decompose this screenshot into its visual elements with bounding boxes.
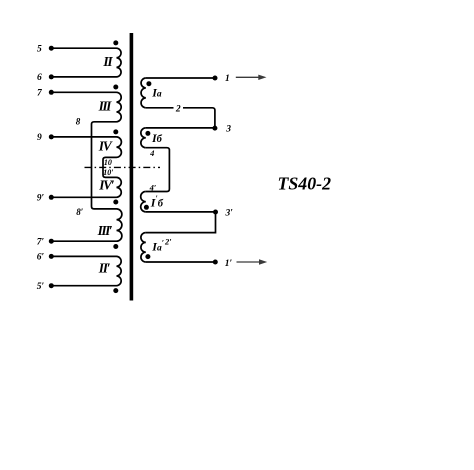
wire 2': node 3' to winding Ia' top bbox=[146, 212, 216, 233]
svg-text:10: 10 bbox=[104, 158, 112, 167]
terminal 7 node bbox=[49, 90, 54, 95]
node 3 bbox=[212, 126, 217, 131]
winding III coil bbox=[117, 92, 122, 121]
winding II with leads to terminals 5 and 6 bbox=[51, 48, 121, 77]
terminal 9' node bbox=[49, 195, 54, 200]
core (laminated core bar) bbox=[130, 33, 134, 301]
polarity dot winding Ia bbox=[146, 81, 151, 86]
wire: winding I6' bottom to node 3' bbox=[146, 211, 216, 213]
terminal 6' node bbox=[49, 254, 54, 259]
polarity dot winding IV' bbox=[113, 200, 118, 205]
terminal 5 node bbox=[49, 46, 54, 51]
svg-text:9′: 9′ bbox=[37, 194, 45, 204]
wire: node 3 to winding I6 top bbox=[146, 127, 215, 129]
svg-text:2: 2 bbox=[175, 104, 181, 114]
svg-text:1: 1 bbox=[225, 74, 230, 84]
svg-text:8: 8 bbox=[76, 116, 81, 126]
svg-text:3′: 3′ bbox=[224, 209, 233, 219]
terminal label 2 (with wire gap) bbox=[174, 104, 184, 113]
arrow output at terminal 1' bbox=[237, 259, 268, 264]
svg-text:III′: III′ bbox=[97, 223, 113, 238]
wire: winding III' bottom to terminal 7' bbox=[51, 240, 116, 242]
svg-text:Iб: Iб bbox=[151, 131, 163, 145]
svg-text:4: 4 bbox=[149, 148, 154, 158]
arrow output at terminal 1 bbox=[236, 75, 267, 80]
wire 2: winding Ia bottom to node 3 bbox=[146, 108, 215, 128]
polarity dot winding I6 bbox=[145, 131, 150, 136]
centerline (dash-dot magnetic axis) bbox=[85, 166, 161, 168]
polarity dot winding Ia' bbox=[145, 254, 150, 259]
svg-text:II′: II′ bbox=[98, 261, 111, 276]
svg-text:IV: IV bbox=[98, 139, 113, 154]
svg-text:5: 5 bbox=[37, 44, 42, 54]
svg-text:Iа: Iа bbox=[151, 85, 162, 99]
polarity dot winding IV bbox=[113, 129, 118, 134]
wire: winding IV' bottom to terminal 9' bbox=[51, 196, 116, 198]
node 3' bbox=[213, 210, 218, 215]
winding III' coil bbox=[117, 209, 122, 241]
terminal 6 node bbox=[49, 74, 54, 79]
svg-text:4′: 4′ bbox=[149, 182, 157, 192]
winding Ia coil bbox=[141, 78, 146, 108]
wire 10-10': winding IV bottom to winding IV' top bbox=[103, 157, 117, 177]
terminal 1' node bbox=[213, 260, 218, 265]
svg-text:II: II bbox=[102, 54, 113, 69]
polarity dot winding I6' bbox=[144, 205, 149, 210]
terminal 5' node bbox=[49, 283, 54, 288]
winding IV' coil bbox=[117, 177, 122, 197]
winding I6 coil bbox=[141, 128, 146, 148]
svg-text:9: 9 bbox=[37, 133, 42, 143]
svg-text:Iа′: Iа′ bbox=[151, 239, 164, 254]
svg-text:I′б: I′б bbox=[150, 194, 164, 210]
svg-text:1′: 1′ bbox=[225, 259, 233, 269]
wire 4-4': winding I6 bottom to winding I6' top bbox=[146, 148, 170, 192]
wire: terminal 1 to winding Ia top bbox=[146, 77, 215, 79]
polarity dot winding III' bbox=[113, 244, 118, 249]
svg-text:TS40-2: TS40-2 bbox=[278, 174, 332, 194]
svg-text:5′: 5′ bbox=[37, 282, 45, 292]
terminal 1 node bbox=[213, 76, 218, 81]
svg-text:7′: 7′ bbox=[37, 237, 45, 247]
wire 8: winding III bottom to winding III' top bbox=[92, 122, 117, 209]
svg-text:10′: 10′ bbox=[103, 168, 113, 177]
wire: terminal 7 lead to winding III top bbox=[51, 91, 116, 93]
winding I6' coil bbox=[141, 192, 146, 212]
terminal 7' node bbox=[49, 239, 54, 244]
svg-text:7: 7 bbox=[37, 89, 43, 99]
wire: terminal 9 lead to winding IV top bbox=[51, 136, 116, 138]
svg-text:2′: 2′ bbox=[164, 236, 172, 246]
terminal 9 node bbox=[49, 134, 54, 139]
svg-text:IV′: IV′ bbox=[98, 177, 115, 192]
svg-text:6′: 6′ bbox=[37, 253, 45, 263]
polarity dot winding II' bbox=[113, 288, 118, 293]
winding II' with leads to terminals 6' and 5' bbox=[51, 256, 121, 285]
polarity dot winding II bbox=[113, 40, 118, 45]
svg-text:8′: 8′ bbox=[76, 207, 84, 217]
wire: winding Ia' bottom to terminal 1' bbox=[146, 261, 216, 263]
polarity dot winding III bbox=[113, 85, 118, 90]
winding Ia' coil bbox=[141, 233, 146, 262]
svg-text:6: 6 bbox=[37, 73, 42, 83]
svg-text:III: III bbox=[98, 99, 113, 114]
svg-text:3: 3 bbox=[225, 125, 231, 135]
winding IV coil bbox=[117, 137, 122, 158]
